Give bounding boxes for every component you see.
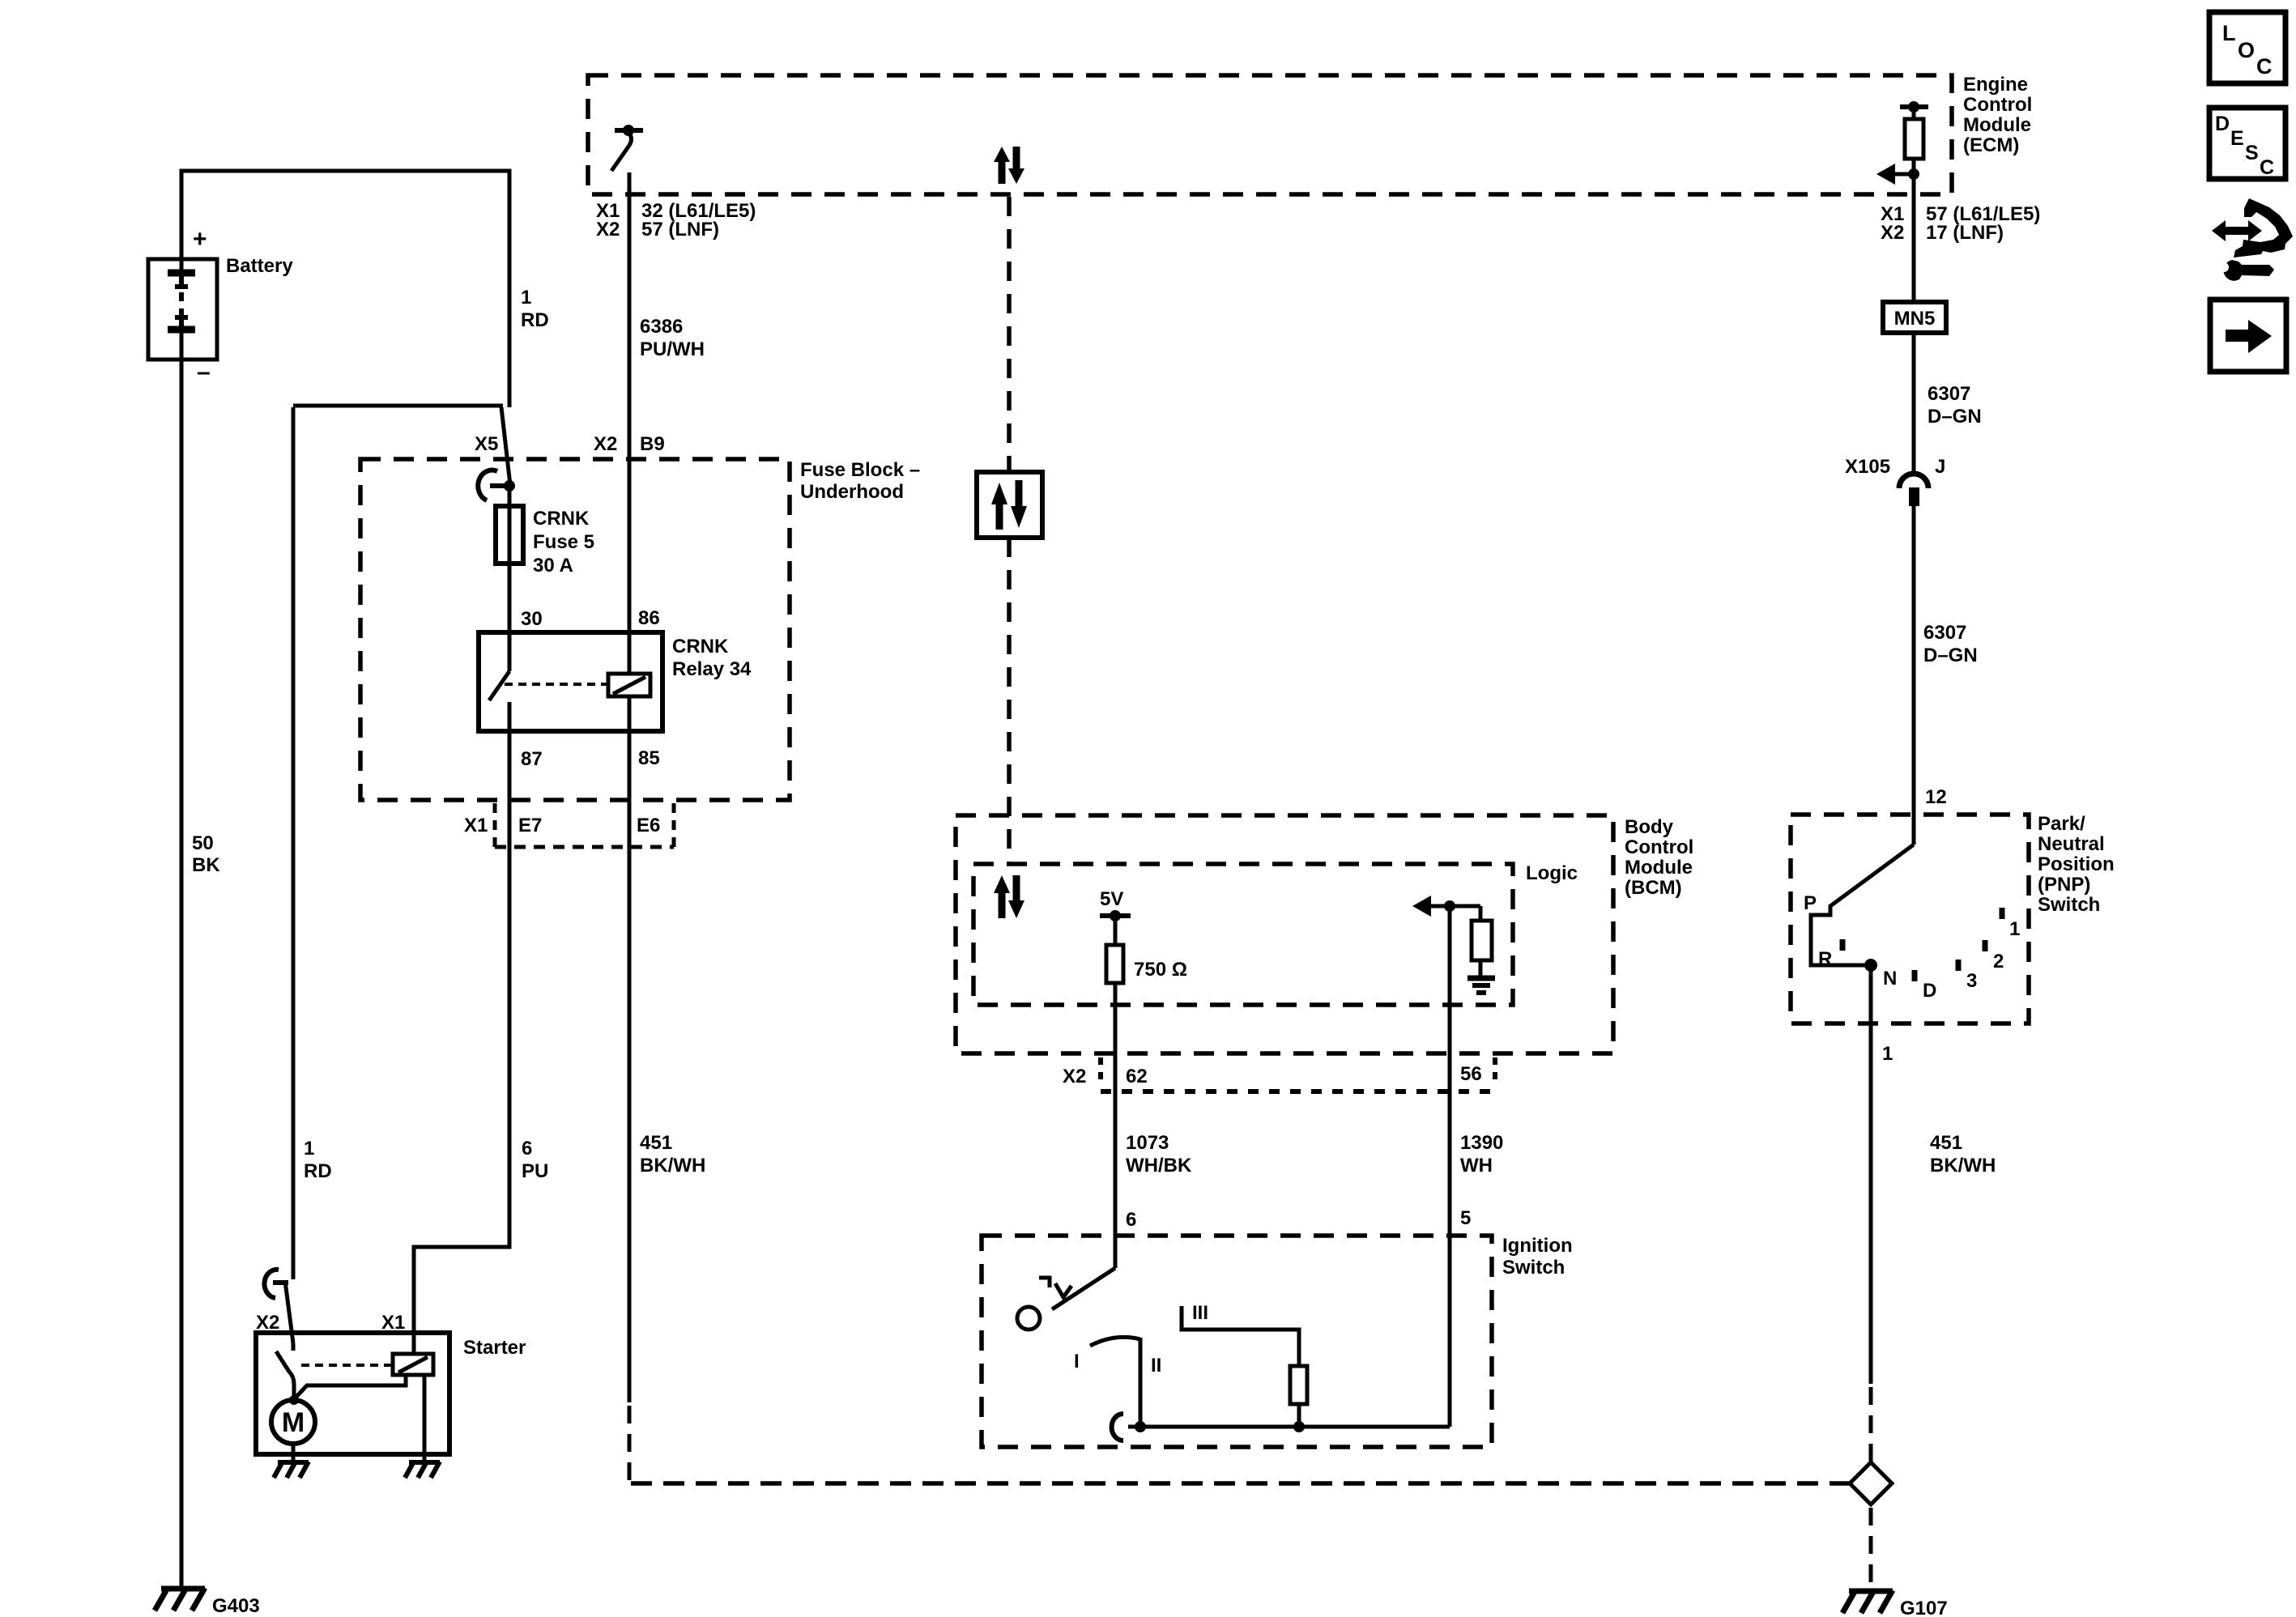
svg-text:30 A: 30 A xyxy=(533,555,573,577)
PNP contact ticks xyxy=(1842,908,2002,981)
svg-text:2: 2 xyxy=(1993,951,2004,972)
starter switch arm xyxy=(276,1351,294,1400)
svg-text:X2: X2 xyxy=(1063,1066,1086,1087)
svg-text:50: 50 xyxy=(192,832,214,854)
battery B1 xyxy=(148,259,217,360)
svg-text:CRNK: CRNK xyxy=(672,636,729,657)
resistor 750 ohm xyxy=(1106,945,1123,983)
relay CRNK Relay 34 box xyxy=(479,632,662,731)
svg-text:1390: 1390 xyxy=(1460,1132,1503,1154)
svg-text:L: L xyxy=(2222,21,2236,45)
svg-text:17 (LNF): 17 (LNF) xyxy=(1926,222,2004,244)
connector X2 diagonal xyxy=(285,1281,293,1343)
svg-text:O: O xyxy=(2238,38,2255,62)
wire solenoid return to ground xyxy=(423,1375,427,1462)
svg-text:Control: Control xyxy=(1625,836,1693,858)
wire coil pins xyxy=(628,632,632,731)
svg-text:1: 1 xyxy=(304,1138,314,1160)
splice MN5 xyxy=(1883,302,1946,333)
node junction X5 xyxy=(504,480,515,491)
svg-text:M: M xyxy=(282,1407,305,1438)
svg-text:Relay 34: Relay 34 xyxy=(672,658,752,680)
svg-text:X105: X105 xyxy=(1845,456,1890,478)
svg-text:N: N xyxy=(1883,968,1897,989)
ground starter motor xyxy=(274,1462,309,1478)
svg-text:6307: 6307 xyxy=(1928,383,1970,405)
starter box xyxy=(256,1333,449,1454)
node 5V supply xyxy=(1100,888,1131,945)
svg-text:3: 3 xyxy=(1966,970,1977,992)
svg-text:WH/BK: WH/BK xyxy=(1126,1155,1192,1177)
wire into starter switch xyxy=(292,1343,296,1351)
svg-text:S: S xyxy=(2245,142,2259,164)
svg-text:Ignition: Ignition xyxy=(1502,1235,1573,1257)
wire resistor to ground xyxy=(1479,960,1483,977)
splice diamond xyxy=(1850,1462,1892,1504)
node ECM output junction xyxy=(1908,168,1919,180)
wire position III branch xyxy=(1182,1306,1299,1366)
wire resistor to bottom rail xyxy=(1297,1404,1301,1427)
wire relay 85 to ground path 451 BK/WH xyxy=(628,731,632,1402)
svg-text:–: – xyxy=(197,359,211,385)
arrow ECM output (left pointing) xyxy=(1876,164,1914,185)
ECM serial data arrows xyxy=(994,147,1024,184)
ignition switch pivot circle xyxy=(1017,1307,1040,1330)
wire solenoid to motor contact xyxy=(295,1375,406,1398)
svg-text:X2: X2 xyxy=(1881,222,1904,244)
svg-text:Neutral: Neutral xyxy=(2038,833,2105,855)
svg-text:G403: G403 xyxy=(212,1595,260,1617)
svg-text:6: 6 xyxy=(1126,1209,1136,1231)
ignition switch dashed box xyxy=(982,1236,1492,1447)
svg-text:X2: X2 xyxy=(596,219,620,240)
wire dashed 451 to bottom rail xyxy=(628,1406,632,1482)
svg-text:86: 86 xyxy=(638,607,660,629)
svg-text:MN5: MN5 xyxy=(1894,308,1936,330)
wire motor to ground xyxy=(292,1444,296,1462)
svg-text:C: C xyxy=(2256,54,2273,79)
svg-text:5V: 5V xyxy=(1100,888,1123,910)
wire fuse inside xyxy=(508,508,512,564)
wire branch to starter X2 (1 RD) xyxy=(292,407,296,1279)
wire BCM 62 output xyxy=(1114,983,1118,1268)
svg-text:II: II xyxy=(1151,1355,1161,1377)
wire X5 horizontal branch xyxy=(293,404,503,408)
svg-text:1: 1 xyxy=(2009,918,2020,940)
svg-text:E6: E6 xyxy=(637,815,660,836)
svg-text:1: 1 xyxy=(521,287,531,309)
resistor ignition xyxy=(1290,1366,1307,1404)
connector X5 terminal hook xyxy=(478,470,506,500)
svg-text:Logic: Logic xyxy=(1526,862,1578,884)
svg-text:Park/: Park/ xyxy=(2038,813,2085,835)
svg-text:Control: Control xyxy=(1963,94,2032,116)
svg-text:87: 87 xyxy=(521,748,543,770)
svg-text:CRNK: CRNK xyxy=(533,508,590,530)
wire ECM left output xyxy=(628,172,632,194)
ignition switch movable arm xyxy=(1052,1268,1115,1309)
wire to BCM pulldown resistor xyxy=(1479,906,1483,921)
fuse CRNK Fuse 5 30 A xyxy=(496,506,523,564)
wire position II branch xyxy=(1139,1338,1143,1427)
icon DESC box xyxy=(2209,108,2285,179)
svg-text:Body: Body xyxy=(1625,816,1674,838)
wire 6386 PU WH from ECM to B9 xyxy=(628,172,632,459)
resistor BCM pulldown xyxy=(1472,921,1492,960)
svg-text:750 Ω: 750 Ω xyxy=(1134,959,1187,981)
ground G107 xyxy=(1842,1590,1948,1617)
wire resistor to node xyxy=(1912,159,1916,194)
svg-text:5: 5 xyxy=(1460,1207,1471,1229)
svg-text:451: 451 xyxy=(640,1132,672,1154)
svg-text:+: + xyxy=(193,226,207,253)
svg-text:D–GN: D–GN xyxy=(1928,406,1982,428)
svg-text:56: 56 xyxy=(1460,1063,1482,1085)
fuse block underhood dashed box xyxy=(360,459,790,800)
wire junction to fuse xyxy=(508,486,512,508)
connector pocket E7 E6 below fuse block xyxy=(495,803,674,847)
svg-text:RD: RD xyxy=(521,309,549,331)
svg-text:6: 6 xyxy=(522,1138,532,1160)
relay switch contact xyxy=(489,632,509,731)
svg-text:(BCM): (BCM) xyxy=(1625,877,1682,899)
BCM dashed box xyxy=(956,815,1613,1053)
svg-text:PU/WH: PU/WH xyxy=(640,338,705,360)
svg-text:12: 12 xyxy=(1925,786,1947,808)
ground starter solenoid xyxy=(405,1462,440,1478)
svg-text:Switch: Switch xyxy=(2038,894,2100,916)
terminal hook ignition bottom xyxy=(1112,1414,1123,1440)
svg-text:P: P xyxy=(1804,892,1817,914)
svg-text:BK/WH: BK/WH xyxy=(1930,1155,1996,1177)
dashed control link ECM to arrows box xyxy=(1007,197,1012,472)
svg-text:X1: X1 xyxy=(464,815,488,836)
ECM dashed box xyxy=(588,75,1952,194)
starter solenoid coil xyxy=(393,1354,433,1375)
BCM logic dashed box xyxy=(973,864,1513,1005)
svg-text:BK: BK xyxy=(192,854,220,876)
starter actuation dashed link xyxy=(301,1364,391,1367)
svg-text:Starter: Starter xyxy=(463,1337,526,1359)
dashed control link arrows box to BCM logic xyxy=(1007,538,1012,863)
svg-text:Module: Module xyxy=(1963,114,2031,136)
connector pocket X2 62 56 below BCM xyxy=(1101,1057,1495,1091)
relay coil xyxy=(608,674,650,696)
svg-text:X1: X1 xyxy=(381,1312,405,1334)
svg-text:BK/WH: BK/WH xyxy=(640,1155,705,1177)
svg-text:451: 451 xyxy=(1930,1132,1962,1154)
motor M xyxy=(271,1400,315,1444)
serial data box with arrows xyxy=(977,472,1042,538)
svg-text:85: 85 xyxy=(638,747,660,769)
svg-text:X5: X5 xyxy=(475,433,498,455)
resistor ECM internal xyxy=(1905,119,1923,159)
wire ignition bottom rail xyxy=(1128,1425,1450,1429)
icon diagnostic wrench arrows xyxy=(2212,198,2293,281)
svg-text:Battery: Battery xyxy=(226,255,293,277)
svg-text:J: J xyxy=(1935,456,1945,478)
svg-text:I: I xyxy=(1074,1351,1080,1372)
icon LOC box xyxy=(2209,12,2285,83)
ECM driver switch left xyxy=(611,125,643,171)
ignition switch detent marks xyxy=(1039,1278,1071,1297)
wire dashed PNP to diamond xyxy=(1869,1387,1873,1462)
svg-text:6307: 6307 xyxy=(1923,622,1966,644)
wire X105 to PNP pin 12 xyxy=(1912,506,1916,845)
wire relay 87 to starter X1 (6 PU) xyxy=(414,731,509,1353)
node junction resistor xyxy=(1293,1421,1305,1432)
wire BCM 56 output xyxy=(1448,906,1452,1427)
svg-text:WH: WH xyxy=(1460,1155,1493,1177)
svg-text:PU: PU xyxy=(522,1160,548,1182)
svg-text:B9: B9 xyxy=(640,433,665,455)
node junction motor xyxy=(289,1395,299,1405)
svg-text:X2: X2 xyxy=(594,433,617,455)
svg-text:G107: G107 xyxy=(1900,1598,1948,1617)
svg-text:30: 30 xyxy=(521,608,543,630)
PNP switch dashed box xyxy=(1791,815,2029,1023)
svg-text:D: D xyxy=(1923,980,1936,1002)
node junction II xyxy=(1135,1421,1146,1432)
relay actuation dashed link xyxy=(505,683,608,686)
wire MN5 to X105 xyxy=(1912,333,1916,473)
svg-text:E7: E7 xyxy=(518,815,542,836)
svg-text:Fuse Block –: Fuse Block – xyxy=(800,459,920,481)
svg-text:(ECM): (ECM) xyxy=(1963,134,2019,156)
svg-text:Module: Module xyxy=(1625,857,1693,879)
svg-text:D: D xyxy=(2215,113,2230,135)
icon forward arrow box xyxy=(2210,300,2286,372)
wire ECM right output down xyxy=(1912,194,1916,302)
svg-text:Position: Position xyxy=(2038,853,2115,875)
svg-text:Fuse 5: Fuse 5 xyxy=(533,531,594,553)
svg-text:1073: 1073 xyxy=(1126,1132,1169,1154)
PNP selector wire path xyxy=(1811,845,1914,965)
svg-text:R: R xyxy=(1818,948,1832,970)
connector X105 J xyxy=(1845,456,1945,506)
node junction N xyxy=(1864,959,1877,972)
wire fuse to relay pin 30 xyxy=(508,564,512,632)
wire battery positive to 1 RD vertical xyxy=(181,171,509,407)
svg-text:D–GN: D–GN xyxy=(1923,645,1978,666)
arrow BCM input (left pointing) xyxy=(1412,896,1480,917)
svg-text:62: 62 xyxy=(1126,1066,1148,1087)
ground BCM internal xyxy=(1467,978,1495,993)
wire dashed diamond to G107 xyxy=(1869,1508,1873,1590)
connector X5 diagonal xyxy=(501,407,510,485)
ECM driver right: supply bar xyxy=(1900,101,1928,119)
svg-text:6386: 6386 xyxy=(640,316,683,338)
svg-text:RD: RD xyxy=(304,1160,332,1182)
BCM logic arrows xyxy=(994,875,1024,918)
arc between I and II xyxy=(1090,1337,1140,1346)
wire PNP pin 1 down xyxy=(1869,965,1873,1384)
node junction 56 branch xyxy=(1444,900,1455,912)
svg-text:1: 1 xyxy=(1882,1043,1893,1065)
svg-text:Underhood: Underhood xyxy=(800,481,904,503)
svg-text:E: E xyxy=(2230,127,2244,150)
svg-text:Switch: Switch xyxy=(1502,1257,1565,1279)
svg-text:III: III xyxy=(1192,1302,1208,1324)
svg-text:X2: X2 xyxy=(256,1312,279,1334)
wire B9 to relay pin 86 xyxy=(628,459,632,632)
svg-text:57 (LNF): 57 (LNF) xyxy=(641,219,719,240)
svg-text:Engine: Engine xyxy=(1963,74,2028,96)
svg-text:C: C xyxy=(2260,156,2274,179)
wire dashed bottom rail to diamond xyxy=(631,1481,1850,1486)
ground G403 xyxy=(155,1588,260,1617)
wire battery negative 50 BK down to G403 xyxy=(180,330,184,1588)
connector X2 terminal hook xyxy=(264,1270,288,1298)
svg-text:(PNP): (PNP) xyxy=(2038,874,2090,896)
